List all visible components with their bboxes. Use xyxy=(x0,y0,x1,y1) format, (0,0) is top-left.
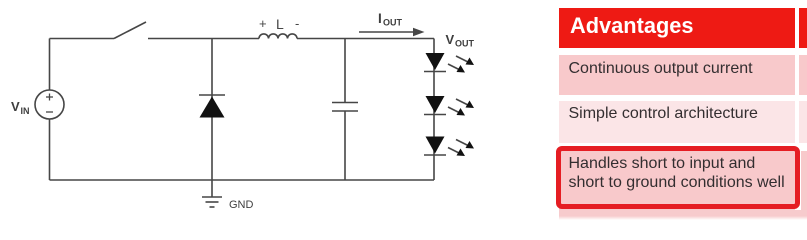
wire: capacitor branch upper xyxy=(344,39,346,103)
svg-text:+: + xyxy=(259,16,267,31)
row 1: continuous output current xyxy=(559,55,795,95)
label VOUT xyxy=(446,32,475,49)
row 2 strip right xyxy=(799,101,807,143)
LED D3 xyxy=(424,96,446,115)
label VIN xyxy=(11,99,30,116)
wire: inductor to output corner xyxy=(297,38,434,40)
svg-text:-: - xyxy=(295,16,299,31)
header strip right xyxy=(799,8,807,48)
row 3 strip right xyxy=(801,151,807,210)
wire: top left horizontal from source to switch xyxy=(50,38,115,40)
capacitor C1 xyxy=(332,103,358,112)
arrow IOUT xyxy=(359,28,425,37)
LED D3 light arrows xyxy=(448,99,474,116)
label + L - for inductor xyxy=(259,16,299,32)
inductor L xyxy=(259,34,297,39)
wire: diode branch vertical xyxy=(211,39,213,198)
row 3: handles short conditions xyxy=(559,151,795,210)
svg-text:OUT: OUT xyxy=(383,18,403,28)
voltage source VIN xyxy=(35,90,64,119)
highlight box around row 3 xyxy=(556,146,800,209)
wire: left vertical above source xyxy=(49,39,51,91)
LED D2 light arrows xyxy=(448,56,474,73)
ground xyxy=(202,197,222,207)
svg-text:I: I xyxy=(378,11,382,26)
advantages table header xyxy=(559,8,795,48)
wire: right vertical (LED string) xyxy=(433,39,435,181)
svg-text:IN: IN xyxy=(21,106,30,116)
wire: switch output to inductor xyxy=(148,38,259,40)
wire: capacitor branch lower xyxy=(344,111,346,180)
row 1 strip right xyxy=(799,55,807,95)
label GND xyxy=(229,199,254,211)
wire: bottom rail xyxy=(50,179,435,181)
svg-text:GND: GND xyxy=(229,199,254,211)
label IOUT xyxy=(378,11,403,28)
LED D2 xyxy=(424,53,446,72)
svg-text:OUT: OUT xyxy=(455,39,475,49)
LED D4 light arrows xyxy=(448,140,474,157)
wire: left vertical below source xyxy=(49,119,51,180)
schematic SVG xyxy=(0,0,530,225)
switch S1 (open blade) xyxy=(114,22,146,39)
row 2: simple control architecture xyxy=(559,101,795,143)
svg-text:V: V xyxy=(11,99,20,114)
svg-text:V: V xyxy=(446,32,455,47)
diode D1 (freewheeling, cathode up) xyxy=(199,95,225,118)
svg-text:L: L xyxy=(276,16,284,32)
LED D4 xyxy=(424,137,446,156)
row 4 fade strip xyxy=(559,210,807,216)
